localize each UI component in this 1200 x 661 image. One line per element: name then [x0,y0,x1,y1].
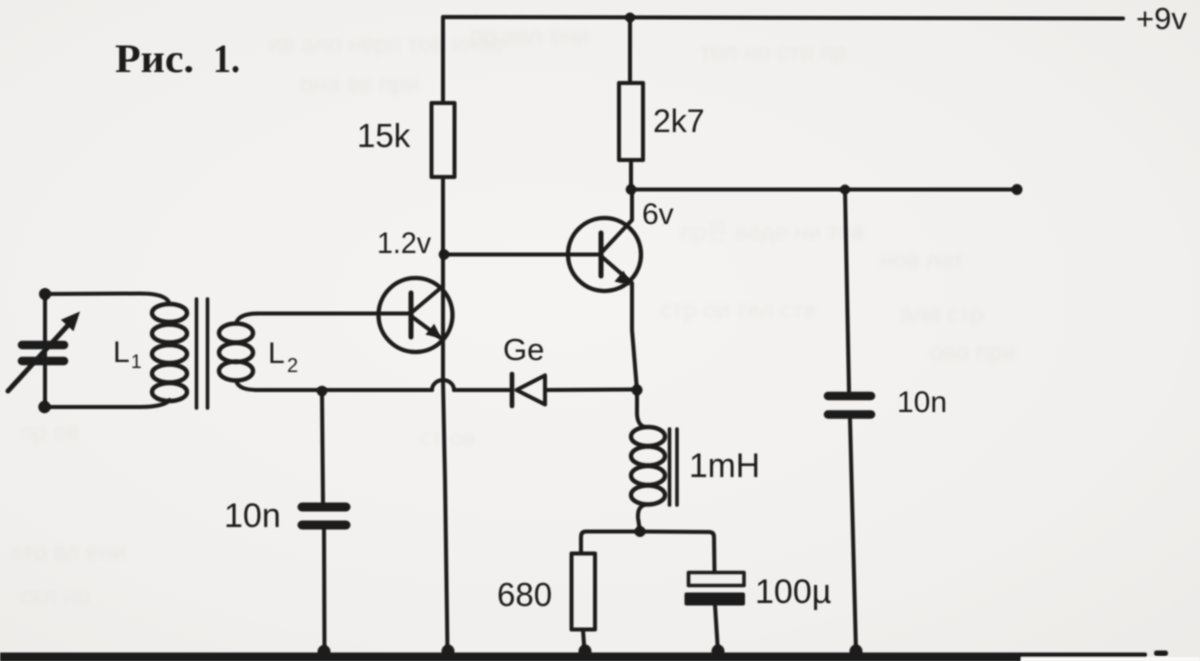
svg-text:680: 680 [497,576,552,613]
svg-text:1.2v: 1.2v [377,227,431,260]
svg-text:L: L [113,336,130,369]
svg-text:2k7: 2k7 [653,103,705,139]
svg-text:пр은 веде ни тов: пр은 веде ни тов [680,219,865,246]
svg-text:10n: 10n [224,497,281,535]
svg-text:тел но сти пр: тел но сти пр [700,39,847,66]
svg-text:ово при: ово при [930,339,1016,366]
svg-text:15k: 15k [357,117,411,154]
svg-text:2: 2 [287,355,298,377]
svg-text:пр ов: пр ов [20,419,79,446]
svg-text:она ве при: она ве при [300,71,419,98]
svg-text:Рис.: Рис. [115,36,194,81]
svg-text:+9v: +9v [1136,1,1187,36]
svg-text:скл но: скл но [20,583,90,610]
svg-text:6v: 6v [642,198,674,231]
svg-text:пр авл ени: пр авл ени [470,23,589,50]
svg-text:L: L [268,337,285,370]
svg-text:ст ов: ст ов [420,425,476,452]
svg-text:1.: 1. [213,36,240,81]
svg-text:10n: 10n [897,386,947,419]
svg-text:Ge: Ge [503,332,544,367]
svg-text:1mH: 1mH [689,447,760,485]
svg-text:ато вл ени: ато вл ени [10,539,126,566]
svg-text:100µ: 100µ [755,573,831,611]
svg-text:нов лат: нов лат [880,247,964,274]
svg-text:ала стр: ала стр [900,301,984,328]
svg-text:стр ои тел ств: стр ои тел ств [660,297,816,324]
svg-text:1: 1 [131,352,142,373]
